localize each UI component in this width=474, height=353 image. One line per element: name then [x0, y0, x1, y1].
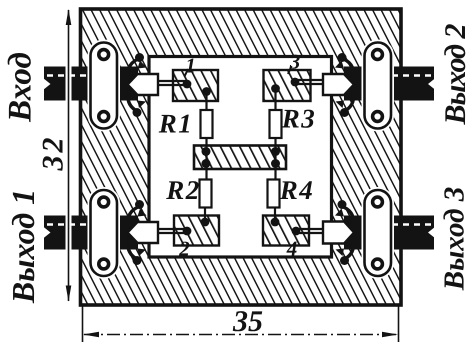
connector IN coax cable (left top): [43, 67, 138, 101]
svg-text:R2: R2: [165, 175, 201, 205]
connector OUT1 insulator bushing: [128, 222, 159, 243]
wire pad1 to R1: [205, 91, 207, 110]
junction dots pad2: [183, 218, 210, 236]
svg-text:Вход: Вход: [3, 52, 39, 123]
junction dots pad1: [183, 80, 211, 96]
wire R2 to pad2: [204, 207, 206, 222]
wire R4 to pad4: [274, 207, 276, 222]
resistor R1: [201, 110, 213, 138]
connector OUT3 ground braid top: [335, 200, 353, 228]
dimension line 32 (left): [66, 9, 72, 302]
cavity (inner opening): [149, 57, 332, 258]
connector OUT1 ground braid bottom: [128, 237, 146, 265]
wire R3 to bar: [274, 138, 276, 152]
connector OUT3 flange: [362, 187, 395, 279]
connector OUT3 center pin: [296, 229, 323, 233]
wire through bar left: [205, 150, 207, 165]
connector OUT3 coax cable (right bottom): [344, 216, 436, 250]
connector OUT2 insulator bushing: [323, 74, 354, 95]
pad 2 (bottom-left contact plate): [174, 216, 219, 246]
wire through bar right: [274, 150, 276, 165]
resistor R4: [268, 180, 280, 208]
wire bar to R2: [205, 164, 207, 181]
connector OUT1 center pin: [158, 229, 186, 233]
svg-text:Выход 3: Выход 3: [439, 187, 471, 292]
wire R1 to bar: [205, 138, 207, 152]
connector OUT1 flange: [88, 187, 121, 279]
svg-text:R3: R3: [281, 104, 317, 134]
svg-text:R1: R1: [158, 109, 194, 139]
dimension line 35 (bottom): [83, 306, 399, 342]
connector OUT2 ground braid top: [335, 53, 353, 80]
svg-text:32: 32: [37, 135, 70, 172]
leader of label 1: [185, 69, 189, 77]
resistor R2: [200, 180, 212, 208]
junction dots pad3: [271, 78, 299, 93]
junction dots bar left: [202, 147, 211, 168]
svg-text:2: 2: [178, 237, 190, 261]
pad 3 (top-right contact plate): [264, 70, 311, 101]
connector OUT3 ground braid bottom: [336, 237, 354, 265]
connector OUT2 flange: [362, 40, 395, 132]
connector IN flange: [88, 40, 121, 132]
junction dots pad4: [271, 218, 301, 236]
connector IN center pin: [158, 81, 186, 85]
svg-text:Выход 1: Выход 1: [5, 189, 41, 304]
connector OUT1 coax cable (left bottom): [43, 216, 138, 250]
resistor R3: [270, 110, 282, 138]
svg-text:Выход 2: Выход 2: [439, 23, 472, 125]
wire pad3 to R3: [274, 88, 276, 110]
connector IN ground braid bottom: [128, 89, 146, 117]
junction dots bar right: [271, 147, 280, 168]
svg-text:4: 4: [286, 237, 298, 261]
pad 4 (bottom-right contact plate): [263, 216, 309, 246]
connector OUT1 ground braid top: [128, 200, 146, 228]
common bar (central hatched strip): [194, 146, 286, 170]
leader of label 3: [288, 66, 292, 74]
connector IN insulator bushing: [128, 74, 159, 95]
svg-text:R4: R4: [279, 175, 315, 205]
pad 1 (top-left contact plate): [173, 70, 218, 101]
connector OUT2 coax cable (right top): [344, 67, 436, 101]
box plate (hatched housing): [81, 9, 402, 305]
connector OUT2 ground braid bottom: [336, 89, 354, 117]
connector IN ground braid top: [128, 53, 146, 80]
wire bar to R4: [274, 164, 276, 181]
connector OUT3 insulator bushing: [323, 222, 354, 244]
svg-text:1: 1: [185, 54, 196, 78]
connector OUT2 center pin: [296, 80, 323, 84]
svg-text:35: 35: [232, 305, 263, 338]
